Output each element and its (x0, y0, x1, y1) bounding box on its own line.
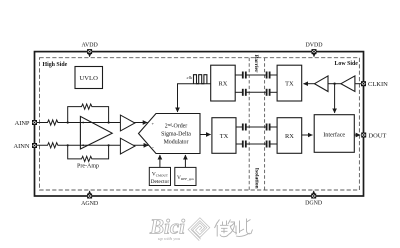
svg-text:clk: clk (187, 75, 193, 80)
svg-text:VREF_gen: VREF_gen (177, 175, 194, 181)
svg-text:VCMOUT: VCMOUT (152, 172, 169, 178)
svg-text:DOUT: DOUT (369, 132, 387, 139)
svg-text:Interface: Interface (323, 132, 345, 139)
svg-text:RX: RX (219, 81, 228, 88)
svg-text:Detector: Detector (151, 179, 170, 185)
svg-text:Pre-Amp: Pre-Amp (77, 164, 99, 170)
svg-text:Isolation: Isolation (254, 168, 260, 190)
svg-text:TX: TX (285, 81, 294, 88)
svg-text:CLKIN: CLKIN (368, 81, 388, 88)
svg-text:DVDD: DVDD (305, 42, 323, 48)
svg-text:DGND: DGND (305, 201, 323, 207)
svg-text:TX: TX (220, 133, 229, 140)
svg-text:Modulator: Modulator (164, 140, 189, 146)
svg-text:+: + (152, 121, 155, 126)
svg-text:RX: RX (285, 133, 294, 140)
svg-text:UVLO: UVLO (80, 75, 99, 82)
svg-text:up with you: up with you (158, 236, 181, 241)
svg-text:Bici: Bici (149, 215, 185, 239)
svg-text:High Side: High Side (43, 62, 68, 68)
svg-text:-: - (152, 144, 154, 150)
svg-text:AINN: AINN (14, 143, 30, 150)
svg-text:Low Side: Low Side (335, 61, 359, 67)
svg-text:AINP: AINP (15, 120, 30, 127)
svg-text:AVDD: AVDD (81, 42, 98, 48)
svg-text:Sigma-Delta: Sigma-Delta (161, 132, 191, 138)
svg-text:AGND: AGND (81, 201, 99, 207)
svg-text:Barrier: Barrier (253, 55, 259, 74)
